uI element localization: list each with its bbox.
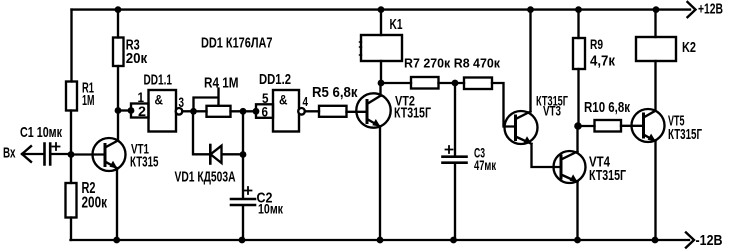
wire rail to K1 xyxy=(380,10,382,35)
transistor VT2 xyxy=(356,83,390,240)
svg-text:Вх: Вх xyxy=(3,145,16,162)
node diode C2 junction xyxy=(240,151,247,158)
wire C2 to bottom rail xyxy=(242,206,244,241)
VT2 emitter arrow xyxy=(372,119,380,127)
wire R5 to VT2 base xyxy=(347,111,367,113)
node DD1.1 input junction xyxy=(115,107,122,114)
svg-text:R9: R9 xyxy=(590,36,603,52)
svg-text:DD1.1: DD1.1 xyxy=(144,72,173,89)
resistor R9 xyxy=(573,38,585,69)
DD1.2 output bubble pin 4 xyxy=(298,108,305,115)
svg-text:VD1 КД503А: VD1 КД503А xyxy=(175,169,236,186)
C3 plus sign xyxy=(446,146,453,153)
wire R3 branch xyxy=(117,10,119,111)
svg-text:&: & xyxy=(155,92,164,108)
svg-text:КТ315: КТ315 xyxy=(130,154,159,171)
node B R4 right junction xyxy=(240,108,247,115)
svg-text:1М: 1М xyxy=(82,93,95,109)
transistor VT4 xyxy=(554,126,586,240)
arrow +12V xyxy=(688,2,696,17)
op-amp U1 gate DD1.1 body xyxy=(149,90,177,132)
node VT4 emitter bottom rail xyxy=(574,237,581,244)
VT4 emitter arrow xyxy=(570,174,578,182)
resistor R2 xyxy=(66,183,77,218)
wire base node to VT1 xyxy=(71,153,105,155)
node D R9 R10 VT4 junction xyxy=(574,122,582,130)
resistor R3 xyxy=(113,38,124,67)
svg-text:VT3: VT3 xyxy=(543,104,561,119)
svg-text:C1 10мк: C1 10мк xyxy=(20,124,62,141)
op-amp U2 gate DD1.2 body xyxy=(273,90,299,132)
arrow -12V xyxy=(686,233,694,248)
resistor R4 body xyxy=(207,106,231,117)
svg-text:DD1.2: DD1.2 xyxy=(259,71,291,88)
node C3 bottom rail xyxy=(450,237,457,244)
wire rail to R9 xyxy=(577,10,579,38)
wire diode node down to C2 xyxy=(242,155,244,199)
wire R9 to node D xyxy=(577,69,579,126)
node R9 top rail junction xyxy=(575,6,582,13)
resistor R7 xyxy=(411,77,439,89)
transistor VT5 xyxy=(632,61,665,240)
svg-text:+12В: +12В xyxy=(698,2,723,18)
svg-text:R5 6,8к: R5 6,8к xyxy=(312,84,358,101)
wire node down to C3 xyxy=(454,83,456,156)
wire R8 to VT3 base xyxy=(492,83,515,127)
svg-text:R10 6,8к: R10 6,8к xyxy=(584,100,631,116)
resistor R1 xyxy=(66,82,77,111)
C2 plus sign xyxy=(245,187,252,194)
svg-text:47мк: 47мк xyxy=(474,157,497,173)
node C3 top junction xyxy=(452,80,459,87)
DD1.1 output bubble pin 3 xyxy=(176,108,183,115)
node VT2 collector R7 junction xyxy=(378,80,385,87)
wire +12V top rail xyxy=(72,8,691,10)
relay K2 xyxy=(636,37,676,61)
wire node A to R4 xyxy=(194,110,207,112)
wire R4 right to node B xyxy=(231,110,257,112)
svg-text:200к: 200к xyxy=(82,195,108,212)
C1 plus sign xyxy=(53,143,60,150)
svg-text:6: 6 xyxy=(262,103,269,119)
wire R10 to VT5 base xyxy=(621,125,643,127)
node A pin3 output xyxy=(190,108,197,115)
svg-text:10мк: 10мк xyxy=(258,201,284,217)
wire C3 to bottom rail xyxy=(454,163,456,240)
wire node to R7 xyxy=(381,82,411,84)
svg-text:DD1 К176ЛА7: DD1 К176ЛА7 xyxy=(201,34,273,51)
capacitor C1 xyxy=(45,144,51,165)
svg-text:K2: K2 xyxy=(682,39,696,56)
input arrow Вх xyxy=(22,146,44,162)
R4 wiper stem and link xyxy=(194,89,219,112)
wire K2 to top rail xyxy=(654,10,656,37)
node C2 bottom rail xyxy=(239,237,246,244)
node DD1.2 input junction xyxy=(253,108,260,115)
svg-text:КТ315Г: КТ315Г xyxy=(589,168,626,184)
node K1 top rail junction xyxy=(378,6,385,13)
node R3 top rail junction xyxy=(115,6,122,13)
svg-text:-12В: -12В xyxy=(696,232,723,249)
wire R7 to node C3 xyxy=(439,82,465,84)
relay K1 xyxy=(361,35,402,61)
diode VD1 xyxy=(210,145,242,164)
node K2 top rail junction xyxy=(653,6,660,13)
resistor R5 xyxy=(319,106,347,117)
transistor VT3 xyxy=(505,10,561,167)
svg-text:20к: 20к xyxy=(126,50,148,67)
svg-text:4,7к: 4,7к xyxy=(590,54,616,70)
svg-text:R4 1М: R4 1М xyxy=(204,75,239,92)
wire node B down to diode node xyxy=(242,111,244,154)
node bracket junction xyxy=(128,107,135,114)
node VT1 emitter to rail xyxy=(113,237,120,244)
node VT2 emitter bottom rail xyxy=(377,237,384,244)
node VT3 collector top rail xyxy=(527,6,534,13)
transistor VT1 xyxy=(93,111,126,241)
node base VT1 junction xyxy=(68,151,75,158)
wire to DD1.1 input bracket xyxy=(118,109,131,111)
wire DD1.2 pin4 to R5 xyxy=(305,110,319,112)
svg-text:4: 4 xyxy=(303,94,309,109)
VT5 emitter arrow xyxy=(648,134,656,142)
resistor R10 xyxy=(595,120,622,132)
wire C1 to base node xyxy=(52,153,72,155)
DD1.1 input pin bracket pins 1-2 xyxy=(131,104,149,118)
svg-text:3: 3 xyxy=(179,94,185,110)
wire node A down to diode row xyxy=(193,111,210,154)
svg-text:K1: K1 xyxy=(390,16,403,33)
DD1.2 input pin bracket pins 5-6 xyxy=(256,104,273,118)
svg-text:КТ315Г: КТ315Г xyxy=(668,127,702,143)
capacitor C2 xyxy=(231,199,255,205)
resistor R8 xyxy=(464,78,492,90)
capacitor C3 xyxy=(443,157,467,163)
svg-text:&: & xyxy=(279,92,288,108)
svg-text:R7 270к R8 470к: R7 270к R8 470к xyxy=(404,57,501,71)
wire node D to R10 xyxy=(578,125,595,127)
K1 left edge ticks xyxy=(360,42,362,55)
wire R1 branch vertical xyxy=(70,10,73,240)
wire DD1.1 pin3 to node A xyxy=(182,110,193,112)
VT1 emitter arrow xyxy=(110,161,118,169)
svg-text:КТ315Г: КТ315Г xyxy=(394,105,431,122)
wire -12V bottom rail xyxy=(71,239,690,241)
VT3 emitter arrow xyxy=(524,136,532,144)
node VT5 emitter bottom rail xyxy=(652,237,659,244)
svg-text:2: 2 xyxy=(138,103,146,119)
wire K1 to VT2 collector node xyxy=(380,61,382,83)
